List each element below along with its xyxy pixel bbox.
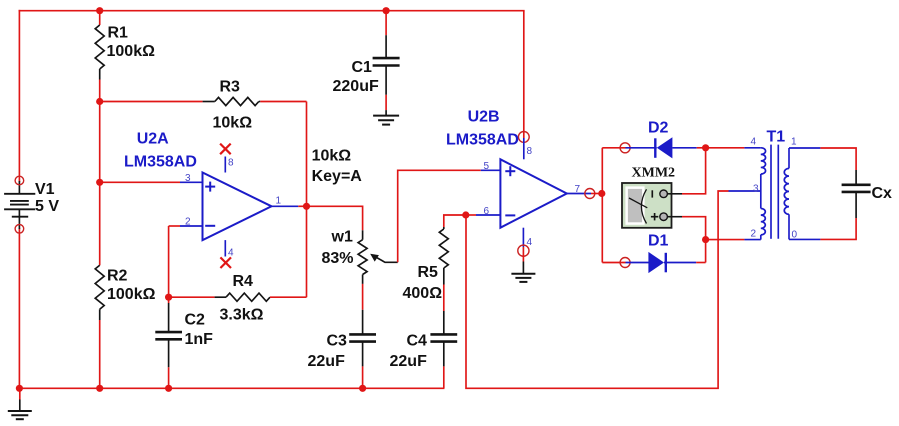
wire output split column — [601, 148, 603, 263]
wire plus node to T1 pin2 — [706, 239, 745, 241]
svg-text:R2: R2 — [107, 268, 128, 285]
U2A labels — [124, 131, 282, 259]
wire U2B pin6 node — [466, 214, 476, 216]
svg-text:1nF: 1nF — [185, 331, 214, 348]
junction C2 bottom — [165, 385, 172, 392]
svg-text:U2A: U2A — [137, 131, 169, 148]
U2A pin8 no-connect X — [220, 144, 231, 155]
wire left rail upper — [18, 11, 20, 181]
svg-text:10kΩ: 10kΩ — [312, 148, 352, 165]
svg-text:8: 8 — [527, 146, 533, 157]
connector ring U2B pin8 — [518, 132, 529, 143]
junction node U2A pin3 — [96, 179, 103, 186]
diode D1 — [626, 233, 706, 274]
svg-text:R1: R1 — [108, 25, 129, 42]
svg-text:6: 6 — [484, 206, 490, 217]
svg-text:R3: R3 — [220, 79, 241, 96]
wire bottom rail — [19, 387, 443, 389]
connector ring D2 anode — [620, 143, 630, 153]
svg-text:R5: R5 — [418, 264, 439, 281]
resistor R4 — [169, 273, 307, 324]
svg-text:LM358AD: LM358AD — [124, 154, 197, 171]
U2A pin4 no-connect X — [220, 257, 231, 268]
capacitor C1 — [333, 11, 400, 110]
wire T1 pin1 to Cx top — [820, 148, 856, 170]
wire T1 pin0 to Cx bottom — [820, 218, 856, 239]
wire w1 bottom to C3 — [362, 284, 364, 310]
svg-text:100kΩ: 100kΩ — [107, 286, 156, 303]
svg-text:Key=A: Key=A — [312, 168, 363, 185]
resistor R5 — [403, 215, 466, 302]
wire feedback column — [306, 102, 308, 298]
junction R1 top rail — [96, 7, 103, 14]
svg-text:w1: w1 — [331, 229, 353, 246]
svg-text:Cx: Cx — [872, 185, 893, 202]
junction node D2/XMM2 — [702, 144, 709, 151]
connector ring U2B pin4 — [518, 245, 529, 256]
wire w1 wiper to U2B pin5 — [398, 170, 481, 262]
svg-text:1: 1 — [276, 196, 282, 207]
svg-text:220uF: 220uF — [333, 78, 379, 95]
svg-text:5: 5 — [484, 161, 490, 172]
resistor R2 — [95, 182, 155, 388]
wire to D1 — [602, 262, 625, 264]
svg-text:4: 4 — [228, 248, 234, 259]
T1 labels — [751, 129, 798, 241]
junction node D1/XMM2 — [702, 236, 709, 243]
svg-text:4: 4 — [751, 137, 757, 148]
svg-text:22uF: 22uF — [308, 353, 346, 370]
diode D2 — [626, 120, 706, 159]
multimeter XMM2 — [622, 166, 682, 228]
junction ground rail left — [16, 385, 23, 392]
svg-text:3.3kΩ: 3.3kΩ — [220, 307, 264, 324]
wire output node to potentiometer top — [307, 206, 363, 230]
svg-text:D1: D1 — [648, 233, 669, 250]
label 10kOhm Key=A (w1 value) — [312, 148, 363, 186]
capacitor Cx — [842, 170, 892, 218]
svg-text:1: 1 — [791, 137, 797, 148]
svg-text:400Ω: 400Ω — [403, 285, 443, 302]
svg-text:R4: R4 — [233, 273, 254, 290]
svg-text:C3: C3 — [327, 333, 348, 350]
svg-text:8: 8 — [228, 158, 234, 169]
wire V+ drop to U2B pin8 — [523, 11, 525, 138]
junction node R1/R3 — [96, 98, 103, 105]
svg-text:83%: 83% — [322, 250, 354, 267]
wire top rail — [19, 10, 523, 12]
svg-text:10kΩ: 10kΩ — [213, 115, 253, 132]
svg-text:LM358AD: LM358AD — [446, 132, 519, 149]
capacitor C3 — [308, 310, 377, 389]
svg-text:7: 7 — [575, 184, 581, 195]
wire U2A pin3 input — [100, 181, 180, 183]
junction C1 top rail — [383, 7, 390, 14]
wire U2A pin2 branch — [169, 226, 180, 297]
wire left rail lower — [18, 229, 20, 388]
svg-text:C2: C2 — [185, 312, 206, 329]
svg-text:3: 3 — [185, 173, 191, 184]
junction C3 bottom — [359, 385, 366, 392]
junction node U2A output — [303, 203, 310, 210]
wire XMM2 minus to D2 node — [682, 148, 706, 194]
svg-text:U2B: U2B — [468, 109, 500, 126]
ground (bottom left) — [8, 388, 32, 419]
junction node R4/C2 — [165, 294, 172, 301]
capacitor C4 — [390, 311, 458, 388]
junction R2 bottom — [96, 385, 103, 392]
svg-text:T1: T1 — [767, 129, 786, 146]
junction node U2B pin6 — [462, 211, 469, 218]
svg-text:XMM2: XMM2 — [632, 166, 676, 181]
wire to D2 — [602, 147, 625, 149]
ground (U2B pin4) — [511, 247, 535, 282]
potentiometer w1 — [322, 229, 398, 284]
resistor R1 — [95, 11, 155, 183]
connector ring U2B pin7 — [585, 189, 595, 199]
U2B labels — [446, 109, 581, 249]
wire XMM2 plus to D1 node — [682, 217, 706, 240]
wire D1 up to plus node — [705, 240, 707, 263]
svg-text:C4: C4 — [407, 333, 428, 350]
svg-text:3: 3 — [753, 184, 759, 195]
op-amp U2B — [476, 138, 591, 247]
svg-text:2: 2 — [185, 217, 191, 228]
wire R5 bottom to C4 — [443, 285, 445, 312]
svg-text:C1: C1 — [352, 59, 373, 76]
svg-text:0: 0 — [792, 230, 798, 241]
wire D2 node to T1 pin4 — [706, 147, 745, 149]
wire U2B pin6 feedback loop (down, right, up to T1 pin3) — [466, 191, 729, 388]
junction node U2B output — [598, 190, 605, 197]
connector ring D1 anode — [620, 258, 630, 268]
svg-text:D2: D2 — [648, 120, 669, 137]
battery V1 — [4, 176, 59, 233]
svg-text:22uF: 22uF — [390, 353, 428, 370]
wire U2A output to feedback node — [298, 205, 306, 207]
svg-text:100kΩ: 100kΩ — [107, 43, 156, 60]
op-amp U2A — [180, 157, 298, 257]
svg-text:5 V: 5 V — [35, 198, 59, 215]
transformer T1 — [729, 145, 821, 240]
capacitor C2 — [155, 297, 213, 388]
resistor R3 — [100, 79, 307, 132]
wire U2B output node — [591, 193, 602, 195]
svg-text:2: 2 — [751, 229, 757, 240]
ground (C1) — [373, 110, 399, 125]
svg-text:V1: V1 — [35, 181, 55, 198]
